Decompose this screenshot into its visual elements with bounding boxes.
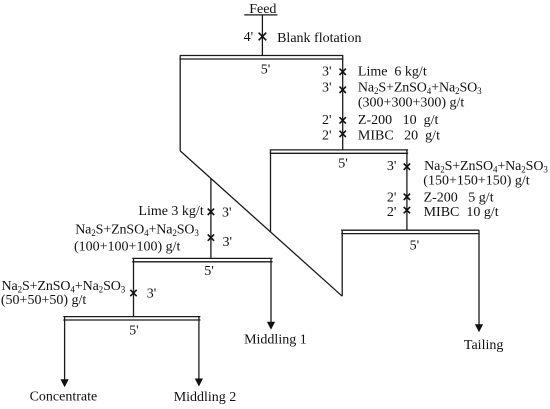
x mark mibc 20 [340,131,346,137]
x mark z200 10 [340,117,346,123]
svg-text:2': 2' [387,205,397,220]
svg-text:Tailing: Tailing [464,338,503,353]
svg-text:4': 4' [244,30,254,45]
svg-text:Z-200 10 g/t: Z-200 10 g/t [358,113,439,128]
svg-text:2': 2' [387,191,397,206]
svg-text:5': 5' [261,63,271,78]
svg-text:3': 3' [222,206,232,221]
cell 2 right downcomer (to cell 3) [406,150,408,230]
cell 4 right downcomer (middling 1 stream) [270,258,272,323]
cell 3 right downcomer (tailing stream) [478,230,480,325]
cell 2 left downcomer (to diagonal) [270,150,272,232]
svg-text:Blank flotation: Blank flotation [277,31,361,46]
cell 4 left downcomer (to cell 5) [133,258,135,316]
svg-text:MIBC 10 g/t: MIBC 10 g/t [424,205,499,220]
cell 3 bar [341,229,479,231]
arrow middling 2 [195,379,203,387]
svg-text:Lime 3 kg/t: Lime 3 kg/t [138,204,203,219]
cell 4 bar [132,257,272,259]
svg-text:Middling 2: Middling 2 [174,390,237,405]
svg-text:(300+300+300) g/t: (300+300+300) g/t [358,96,465,111]
svg-text:MIBC 20 g/t: MIBC 20 g/t [358,128,440,143]
svg-text:5': 5' [129,324,139,339]
svg-text:Concentrate: Concentrate [30,390,98,405]
x mark na2s 300 [340,87,346,93]
diagonal tailing line [180,151,342,296]
cell 1 bar (blank flotation) [180,55,344,57]
svg-text:Z-200 5 g/t: Z-200 5 g/t [424,191,494,206]
x mark lime 6 [340,69,346,75]
svg-text:5': 5' [204,264,214,279]
svg-text:(150+150+150) g/t: (150+150+150) g/t [423,174,530,189]
arrow middling 1 [267,322,275,330]
cell 4 feed line from diagonal [210,179,212,259]
svg-text:Middling 1: Middling 1 [244,333,307,348]
cell 5 right downcomer (middling 2 stream) [198,317,200,380]
arrow tailing [475,324,483,332]
x mark na2s 50 [130,290,136,296]
cell 3 left downcomer (to diagonal end) [341,230,343,296]
x mark na2s 150 [404,164,410,170]
x mark z200 5 [404,194,410,200]
cell 5 left downcomer (concentrate stream) [64,317,66,381]
svg-text:(50+50+50) g/t: (50+50+50) g/t [1,293,87,308]
x mark lime 3 [208,209,214,215]
svg-text:3': 3' [147,286,157,301]
x mark blank flotation (4 min) [259,33,267,41]
svg-text:5': 5' [338,157,348,172]
feed underline [244,14,277,16]
cell 2 bar [270,149,408,151]
svg-text:(100+100+100) g/t: (100+100+100) g/t [74,240,181,255]
svg-text:3': 3' [322,65,332,80]
svg-text:3': 3' [322,81,332,96]
feed line [261,15,263,55]
x mark na2s 100 [208,234,214,240]
cell 1 left downcomer [179,56,181,151]
svg-text:2': 2' [322,128,332,143]
arrow concentrate [61,379,69,387]
svg-text:5': 5' [410,238,420,253]
svg-text:3': 3' [387,159,397,174]
cell 1 right downcomer (to cell 2) [342,56,344,150]
x mark mibc 10 [404,207,410,213]
cell 5 bar [63,316,200,318]
svg-text:2': 2' [322,113,332,128]
svg-text:Lime 6 kg/t: Lime 6 kg/t [358,65,427,80]
svg-text:3': 3' [223,235,233,250]
svg-text:Feed: Feed [249,2,276,17]
